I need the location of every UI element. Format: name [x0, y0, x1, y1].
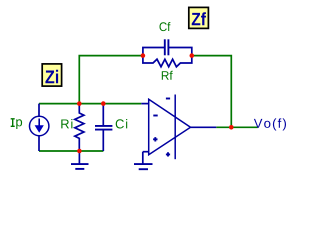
label Zf — [189, 7, 209, 28]
node junction (Ri top / feedback tap) — [77, 101, 82, 106]
resistor Rf — [143, 56, 192, 67]
node junction (output) — [229, 125, 234, 130]
label Zi — [42, 64, 61, 86]
resistor Ri — [75, 104, 84, 151]
wire feedback left: riser from input node up and across to Zf network — [79, 56, 143, 104]
label Rf — [162, 71, 173, 80]
label Vo(f) — [254, 118, 286, 130]
node junction (Ci top) — [101, 101, 106, 106]
label Cf — [160, 22, 171, 31]
node junction (Zf right) — [190, 53, 195, 58]
ground (input section) — [71, 151, 89, 169]
wire output: op-amp output to Vo(f) — [216, 126, 257, 128]
wire bottom rail: current source to Ci bottom — [39, 150, 103, 152]
op-amp U1 — [141, 95, 216, 160]
label Ci — [116, 119, 128, 129]
capacitor Ci — [95, 104, 112, 151]
current source Ip — [30, 104, 49, 151]
node junction (ground tap bottom rail) — [77, 149, 82, 154]
label Ri — [61, 119, 72, 128]
wire top rail: current source to op-amp inverting input — [39, 103, 141, 105]
wire feedback right: from Zf network to output riser down to output node — [192, 56, 232, 128]
ground (op-amp non-inverting input) — [134, 152, 153, 170]
capacitor Cf — [143, 39, 192, 55]
node junction (Zf left) — [141, 53, 146, 58]
label Ip — [11, 119, 22, 129]
